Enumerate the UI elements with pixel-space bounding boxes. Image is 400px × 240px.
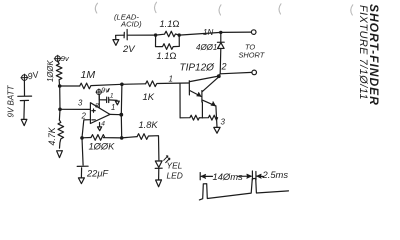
capacitor C1 0.1	[107, 97, 118, 102]
timing ticks (right pair)	[252, 171, 256, 180]
svg-text:22μF: 22μF	[86, 169, 109, 179]
wire to top terminal	[221, 31, 252, 33]
timing arrow 2.5ms	[257, 174, 264, 178]
capacitor C2 22uF	[77, 166, 88, 177]
ground arrow below 22uF	[78, 178, 84, 184]
wire pin3 to op-amp	[60, 108, 90, 110]
wire 1.8K row	[122, 137, 137, 138]
ground at bypass cap	[115, 101, 119, 105]
resistor R2 4.7K (vertical)	[58, 120, 64, 148]
9V battery cell	[18, 80, 32, 119]
ground at pin4	[98, 127, 102, 131]
svg-text:2V: 2V	[122, 44, 136, 55]
timing diagram: left tick	[199, 173, 201, 180]
node at diode top	[219, 31, 222, 34]
wire base branch down	[179, 83, 181, 118]
svg-text:2: 2	[81, 111, 87, 120]
svg-text:YEL: YEL	[167, 161, 183, 171]
wire down to 4.7K	[58, 109, 61, 120]
battery B2 2V lead-acid cell	[116, 30, 128, 40]
ground below LED	[156, 180, 162, 187]
ground below 4.7K	[57, 151, 63, 158]
wire 1K row	[122, 83, 146, 86]
svg-text:1ØØK: 1ØØK	[89, 142, 116, 152]
wire right rail (vertical)	[120, 84, 123, 138]
svg-text:1: 1	[111, 103, 115, 112]
wire internal mid vertical	[201, 102, 203, 118]
wire +9v branch to bypass cap	[99, 96, 106, 100]
node: output junction	[119, 113, 123, 117]
svg-text:1M: 1M	[81, 69, 96, 81]
resistor R6 (internal, base-emitter)	[180, 115, 202, 120]
svg-text:1K: 1K	[143, 92, 155, 103]
wire bottom feedback row	[82, 137, 91, 139]
svg-text:9V: 9V	[27, 69, 41, 81]
transistor Q2 (second of darlington)	[202, 77, 219, 118]
transistor Q1 (first of darlington)	[180, 76, 218, 96]
wire 1M row	[60, 85, 80, 87]
node: bottom of right rail	[120, 136, 124, 140]
svg-text:4.7K: 4.7K	[47, 126, 57, 145]
label YEL LED	[167, 161, 183, 181]
svg-text:2.5ms: 2.5ms	[262, 169, 289, 180]
resistor R5 1K	[146, 81, 180, 87]
wire collector node up to diode	[219, 74, 220, 77]
+9v terminal at op-amp	[96, 89, 102, 95]
node: collector junction	[217, 74, 221, 78]
LED D2 (yellow)	[155, 156, 170, 180]
wire pin4 down	[99, 123, 101, 127]
terminal circle (bottom, to short)	[252, 70, 257, 75]
terminal circle (top, to short)	[251, 30, 256, 35]
svg-text:LED: LED	[167, 171, 183, 181]
waveform pulse train	[199, 178, 288, 200]
wire 22uF from node down	[82, 138, 83, 165]
svg-text:FIXTURE 7/1Ø/11: FIXTURE 7/1Ø/11	[357, 5, 369, 100]
svg-text:2: 2	[221, 62, 227, 72]
wire pin8 up to +9v	[98, 94, 100, 107]
notebook arc marks	[95, 2, 352, 15]
resistor R1 100K (vertical)	[56, 61, 62, 86]
wire pair to diode node	[179, 32, 221, 35]
svg-text:1.1Ω: 1.1Ω	[160, 19, 180, 29]
battery B1 9V: +9V terminal	[21, 74, 28, 81]
svg-text:9v: 9v	[61, 54, 70, 63]
label (LEAD-ACID)	[114, 13, 142, 29]
+9V terminal at 100K	[54, 55, 61, 62]
resistor R4 100K (feedback)	[91, 135, 122, 141]
resistor R7 (internal, base-emitter)	[202, 115, 217, 120]
svg-text:TIP12Ø: TIP12Ø	[180, 63, 216, 74]
svg-text:1.1Ω: 1.1Ω	[157, 51, 177, 61]
svg-text:ACID): ACID)	[120, 20, 142, 29]
op-amp U1	[90, 103, 110, 124]
svg-text:1: 1	[169, 75, 173, 84]
ground at 2V battery	[113, 40, 119, 46]
svg-text:9V BATT: 9V BATT	[7, 85, 16, 118]
wire pin2 from op-amp down to bottom node	[82, 120, 90, 138]
node: pin3 junction	[58, 108, 62, 112]
node: pin2 bottom junction	[80, 136, 84, 140]
svg-text:SHORT: SHORT	[239, 51, 265, 60]
resistor 1.1 ohm (top)	[156, 31, 180, 37]
resistor R8 1.8K	[137, 134, 159, 160]
ground at emitter	[214, 127, 220, 133]
wire op-amp output to right rail	[110, 113, 121, 115]
svg-text:1ØØK: 1ØØK	[46, 60, 55, 82]
resistor R3 1M	[80, 83, 122, 89]
timing arrow 140ms	[201, 174, 251, 178]
svg-text:.1: .1	[108, 93, 114, 100]
node: right node of parallel pair	[178, 33, 181, 36]
svg-text:14Øms: 14Øms	[213, 171, 244, 182]
label 1N 4001	[196, 28, 217, 52]
svg-text:1N: 1N	[203, 28, 213, 37]
resistor 1.1 ohm (bottom)	[156, 35, 180, 49]
wire emitter down	[216, 118, 219, 127]
label TO SHORT	[239, 43, 265, 60]
label 9v with tick	[101, 88, 109, 95]
svg-text:1.8K: 1.8K	[139, 120, 159, 130]
node: top of right rail	[120, 83, 124, 87]
svg-text:4ØØ1: 4ØØ1	[196, 43, 217, 52]
wire 2V battery to resistor pair	[127, 34, 155, 36]
node: left node of parallel pair	[154, 33, 157, 36]
wire rail down to pin3 node	[59, 86, 61, 109]
svg-text:3: 3	[221, 118, 226, 127]
diode D1 1N4001	[217, 32, 224, 73]
wire collector node to lower terminal	[220, 72, 252, 73]
svg-text:3: 3	[78, 99, 83, 108]
svg-text:8: 8	[95, 103, 99, 110]
node: 1M left junction	[58, 84, 62, 88]
ground at 9V battery	[21, 119, 27, 125]
